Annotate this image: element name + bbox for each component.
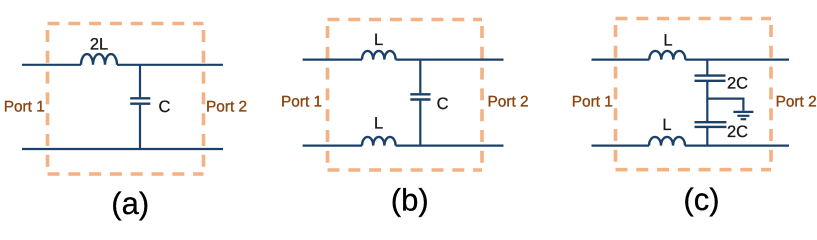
- wire: bottom-right segment (c): [685, 145, 789, 147]
- svg-text:Port 1: Port 1: [281, 93, 322, 110]
- svg-text:(a): (a): [111, 186, 149, 221]
- svg-text:(c): (c): [683, 182, 719, 217]
- inductor 2L (a): [81, 54, 117, 65]
- network boundary box (b): [328, 20, 483, 171]
- wire: bottom-left lead (c): [592, 145, 650, 147]
- wire: shunt branch middle (c): [706, 82, 708, 121]
- wire: shunt branch lower (a): [139, 105, 141, 149]
- wire: top-left lead (c): [592, 58, 650, 60]
- wire: bottom-right segment (b): [396, 145, 504, 147]
- svg-text:C: C: [437, 95, 449, 113]
- wire: top-right segment (a): [117, 64, 223, 66]
- svg-text:L: L: [662, 116, 671, 134]
- svg-text:L: L: [374, 31, 383, 49]
- inductor L bottom (b): [362, 137, 396, 146]
- svg-text:L: L: [663, 32, 672, 50]
- wire: shunt branch lower (c): [706, 128, 708, 146]
- svg-text:Port 1: Port 1: [4, 98, 45, 115]
- capacitor 2C lower (c): [695, 122, 727, 127]
- svg-text:C: C: [159, 98, 171, 116]
- inductor L top (b): [362, 51, 396, 60]
- svg-text:Port 1: Port 1: [572, 93, 613, 110]
- svg-text:Port 2: Port 2: [206, 98, 247, 115]
- svg-text:2C: 2C: [727, 123, 748, 141]
- inductor L bottom (c): [649, 137, 685, 146]
- capacitor C (b): [410, 94, 430, 99]
- wire: bottom-left lead (b): [303, 145, 362, 147]
- capacitor C (a): [130, 98, 150, 103]
- wire: top-right segment (c): [685, 58, 789, 60]
- capacitor 2C upper (c): [695, 76, 726, 81]
- svg-text:L: L: [374, 114, 383, 132]
- network boundary box (c): [616, 19, 772, 170]
- wire: ground tap (c): [707, 99, 743, 111]
- wire: shunt branch upper (a): [139, 65, 141, 97]
- wire: shunt branch upper (b): [419, 60, 421, 94]
- svg-text:2C: 2C: [727, 75, 748, 93]
- ground symbol (c): [733, 112, 753, 119]
- svg-text:(b): (b): [391, 183, 429, 218]
- network boundary box (a): [48, 24, 204, 175]
- svg-text:2L: 2L: [90, 35, 108, 53]
- wire: top-left lead (b): [303, 58, 362, 60]
- wire: top-left lead (a): [22, 64, 81, 66]
- svg-text:Port 2: Port 2: [488, 93, 529, 110]
- svg-text:Port 2: Port 2: [776, 93, 817, 110]
- wire: bottom rail (a): [22, 148, 223, 150]
- wire: shunt branch upper (c): [706, 60, 708, 75]
- inductor L top (c): [649, 51, 685, 60]
- wire: shunt branch lower (b): [419, 101, 421, 146]
- wire: top-right segment (b): [396, 58, 504, 60]
